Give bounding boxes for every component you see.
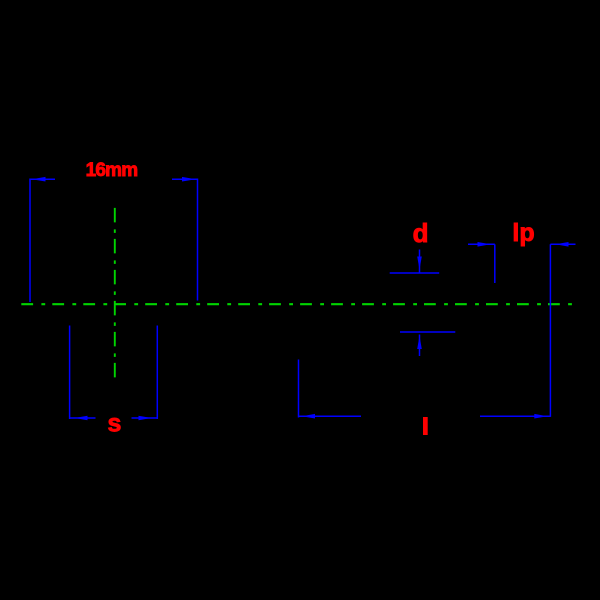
- dimension l: left extension line: [298, 360, 300, 418]
- arrowhead s right (points right): [139, 416, 152, 421]
- dimension lp: left dimension line segment (outside): [468, 243, 495, 245]
- vertical center line (green dash-dot axis): [114, 208, 116, 378]
- dimension d: lower arrow leader (vertical): [419, 335, 421, 357]
- dimension l: right dimension line segment: [480, 415, 550, 417]
- arrowhead lp right (points left): [556, 242, 569, 247]
- svg-text:s: s: [107, 410, 121, 438]
- arrowhead l right (points right): [534, 414, 547, 419]
- arrowhead l left (points left): [302, 414, 315, 419]
- arrowhead lp left (points right): [478, 242, 491, 247]
- dimension l: left dimension line segment: [299, 415, 362, 417]
- dimension s: left extension line: [69, 326, 71, 420]
- horizontal center line (green dash-dot axis): [21, 303, 572, 305]
- dimension 16mm: right dimension line segment: [172, 178, 198, 180]
- dimension s: left dimension line segment: [70, 417, 96, 419]
- dimension lp: right dimension line segment (outside): [550, 243, 575, 245]
- arrowhead s left (points left): [75, 416, 88, 421]
- arrowhead d lower (points up): [417, 336, 422, 349]
- arrowhead d upper (points down): [417, 257, 422, 270]
- dimension s: right extension line: [156, 326, 158, 420]
- dimension 16mm: left extension line: [29, 179, 31, 303]
- dimension s: right dimension line segment: [132, 417, 158, 419]
- dimension l / lp: shared right extension line: [549, 244, 551, 417]
- svg-text:lp: lp: [512, 219, 534, 247]
- arrowhead 16mm left (points left): [32, 177, 46, 182]
- dimension 16mm: left dimension line segment: [30, 178, 55, 180]
- dimension d: lower object line: [400, 331, 455, 333]
- dimension lp: left extension line: [494, 244, 496, 283]
- dimension 16mm: right extension line: [197, 179, 199, 301]
- label l (drawn as bar): [423, 417, 428, 435]
- svg-text:d: d: [413, 218, 429, 248]
- dimension d: upper arrow leader (vertical): [419, 250, 421, 274]
- dimension d: upper object line: [390, 272, 440, 274]
- svg-text:16mm: 16mm: [86, 160, 138, 181]
- arrowhead 16mm right (points right): [182, 177, 196, 182]
